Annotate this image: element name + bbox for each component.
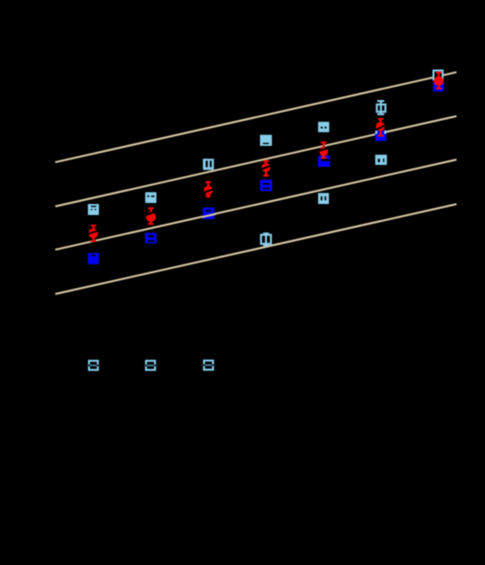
skyblue marker col1 A (filled square with black dash and two dots) [88, 204, 99, 215]
skyblue marker col4 D (open square with vertical bar and caps) [261, 234, 271, 246]
skyblue marker col6 D (filled square with two black slots) [375, 155, 387, 165]
blue marker col3 C (filled square with black dash) [203, 208, 214, 220]
tan line L1 [55, 72, 456, 162]
skyblue marker col7 A (open square) [434, 71, 443, 80]
red errorbar col2 B [145, 208, 156, 225]
red errorbar col3 B [203, 182, 214, 198]
red errorbar col7 B [434, 72, 444, 89]
skyblue marker col3 D (open square with dim horizontal line) [201, 361, 216, 370]
red errorbar col1 B (cap, stem, circle with black slash, stem, cap) [87, 225, 98, 242]
skyblue marker col5 D (filled square with two black slots) [318, 193, 329, 204]
blue marker col7 C (filled square) [433, 82, 444, 92]
skyblue marker col2 D (open square with dim horizontal line) [144, 361, 159, 370]
blue marker col4 C (filled square with two black dashes) [260, 180, 272, 191]
blue marker col2 C (filled square with two black dashes) [145, 233, 157, 243]
blue marker col6 C (filled square, skyblue corner bits) [375, 130, 386, 141]
skyblue marker col4 A (filled square with black dash near bottom) [260, 135, 272, 146]
skyblue marker col3 A (open square with central vertical bar, two black slots) [203, 159, 214, 170]
red errorbar col4 B [261, 161, 272, 177]
skyblue marker col1 D (open square with dim horizontal line) [86, 361, 101, 370]
blue marker col5 C (filled square with dark dash) [318, 156, 330, 167]
red errorbar col6 B [375, 119, 386, 137]
tan line L3 [55, 160, 456, 250]
skyblue marker col5 A (filled square with two black dots) [318, 122, 329, 132]
skyblue marker col6 A (open square with vertical error bar and caps) [377, 101, 386, 114]
tan line L2 [55, 116, 456, 206]
skyblue marker col2 A (filled square with black dot and dash) [145, 192, 156, 203]
blue marker col1 C (filled square with black dash) [88, 253, 99, 264]
tan line L4 [55, 204, 456, 294]
red errorbar col5 B [318, 142, 329, 159]
tan line segment over col3 blue square [202, 214, 217, 217]
